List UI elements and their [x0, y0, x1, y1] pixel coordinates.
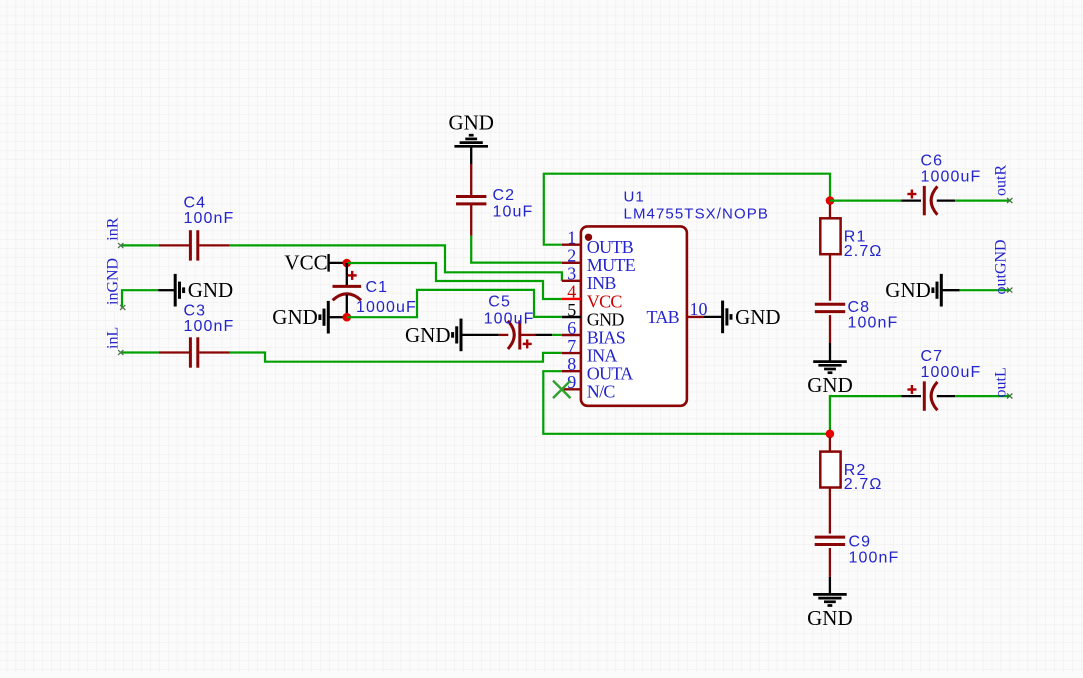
svg-text:100uF: 100uF	[484, 310, 535, 327]
wire end marker outL	[1007, 394, 1012, 399]
svg-text:100nF: 100nF	[848, 315, 899, 332]
junction at C1 bottom	[343, 313, 352, 322]
capacitor C1 (polarized)	[333, 263, 417, 317]
svg-text:inR: inR	[105, 217, 122, 240]
svg-text:LM4755TSX/NOPB: LM4755TSX/NOPB	[624, 205, 769, 222]
wire inL to C3	[121, 351, 159, 353]
wire end marker inR	[118, 243, 123, 248]
svg-text:7: 7	[567, 336, 576, 356]
svg-text:2.7Ω: 2.7Ω	[844, 476, 883, 493]
svg-text:TAB: TAB	[647, 307, 680, 327]
svg-text:GND: GND	[405, 323, 451, 347]
wire C2 to pin 2 MUTE	[471, 236, 562, 263]
wire inGND	[122, 290, 158, 307]
capacitor C3	[159, 303, 234, 368]
svg-text:GND: GND	[272, 305, 318, 329]
svg-text:GND: GND	[188, 278, 234, 302]
wire C7 to outL	[955, 395, 1009, 397]
node outGND (global label)	[993, 239, 1010, 294]
ground symbol at outGND	[885, 274, 959, 307]
pin 10 TAB	[647, 299, 708, 327]
svg-text:OUTA: OUTA	[587, 364, 633, 384]
node inL (global label)	[105, 327, 122, 349]
svg-text:6: 6	[567, 318, 576, 338]
svg-text:1000uF: 1000uF	[356, 299, 417, 316]
wire VCC node to pin 4 VCC	[347, 263, 562, 299]
svg-text:2.7Ω: 2.7Ω	[844, 243, 883, 260]
svg-text:VCC: VCC	[587, 291, 623, 311]
wire C5 to pin 6 BIAS	[552, 334, 562, 336]
svg-text:outR: outR	[993, 165, 1010, 196]
svg-text:INA: INA	[587, 346, 618, 366]
ground symbol top (above C2)	[448, 110, 494, 164]
wire pin 1 OUTB to top rail	[544, 174, 830, 245]
pin 6 BIAS	[562, 318, 625, 348]
svg-text:C2: C2	[493, 187, 516, 204]
wire outGND	[960, 289, 1010, 291]
pin 9 N/C	[562, 372, 616, 402]
svg-text:C4: C4	[184, 195, 207, 212]
resistor R1	[820, 204, 882, 260]
svg-text:C5: C5	[488, 293, 511, 310]
op-amp U1 LM4755TSX/NOPB body	[581, 188, 769, 405]
pin 4 VCC	[562, 282, 623, 312]
power symbol VCC	[284, 251, 345, 275]
node inR (global label)	[105, 217, 122, 240]
svg-text:4: 4	[567, 282, 576, 302]
wire C3 to pin 7 INA	[230, 353, 562, 362]
svg-text:INB: INB	[587, 273, 617, 293]
junction above R2	[826, 430, 835, 439]
node outR (global label)	[993, 165, 1010, 196]
capacitor C2	[456, 164, 533, 236]
pin 7 INA	[562, 336, 617, 366]
resistor R2	[820, 437, 882, 493]
no-connect X on pin 9	[553, 381, 571, 399]
node inGND (global label)	[105, 258, 122, 305]
svg-text:1000uF: 1000uF	[921, 364, 982, 381]
svg-text:C8: C8	[848, 299, 871, 316]
svg-text:GND: GND	[807, 606, 853, 630]
ground symbol left of C1	[272, 301, 343, 334]
pin 8 OUTA	[562, 354, 633, 384]
pin 3 INB	[562, 264, 616, 294]
svg-text:GND: GND	[587, 309, 625, 329]
capacitor C9	[815, 488, 900, 577]
wire C4 to pin 3 INB	[230, 245, 562, 281]
pin 5 GND	[562, 300, 624, 330]
svg-text:outL: outL	[993, 367, 1010, 397]
wire junction to C6	[830, 200, 901, 202]
wire C6 to outR	[955, 200, 1009, 202]
svg-text:inGND: inGND	[105, 258, 122, 305]
svg-text:outGND: outGND	[993, 239, 1010, 294]
svg-text:GND: GND	[885, 278, 931, 302]
svg-text:inL: inL	[105, 327, 122, 349]
svg-text:10uF: 10uF	[493, 204, 534, 221]
svg-text:GND: GND	[448, 110, 494, 134]
wire end marker outR	[1007, 198, 1012, 203]
capacitor C4	[159, 195, 235, 261]
svg-text:VCC: VCC	[284, 251, 327, 275]
svg-text:MUTE: MUTE	[587, 255, 636, 275]
capacitor C8	[815, 254, 899, 343]
wire pin 8 OUTA to bottom rail	[543, 371, 830, 434]
svg-text:U1: U1	[624, 188, 645, 205]
svg-text:5: 5	[567, 300, 576, 320]
wire C1 bottom to pin 5 GND	[347, 290, 562, 317]
capacitor C7 (polarized)	[901, 348, 981, 411]
pin 2 MUTE	[562, 246, 636, 276]
svg-text:2: 2	[567, 246, 576, 266]
svg-text:OUTB: OUTB	[587, 237, 634, 257]
svg-text:C3: C3	[184, 303, 207, 320]
wire bottom junction up to C7	[830, 396, 901, 434]
ground symbol below C8	[807, 343, 853, 397]
ground symbol below C9	[807, 577, 853, 630]
wire end marker inGND	[120, 305, 125, 310]
svg-text:1: 1	[567, 228, 576, 248]
wire end marker outGND	[1007, 288, 1012, 293]
svg-text:8: 8	[567, 354, 576, 374]
svg-text:C6: C6	[921, 152, 944, 169]
svg-text:100nF: 100nF	[849, 549, 900, 566]
wire end marker inL	[118, 350, 123, 355]
node outL (global label)	[993, 367, 1010, 397]
junction at VCC node	[343, 259, 352, 268]
pin 1 OUTB	[562, 228, 634, 258]
svg-text:N/C: N/C	[587, 382, 616, 402]
svg-text:C7: C7	[921, 348, 944, 365]
wire inR to C4	[121, 244, 159, 246]
junction above R1	[826, 196, 835, 205]
svg-text:100nF: 100nF	[184, 318, 235, 335]
capacitor C5 (polarized)	[484, 293, 553, 349]
svg-text:GND: GND	[735, 305, 781, 329]
wire GND to C5	[461, 334, 499, 336]
svg-text:C1: C1	[366, 279, 389, 296]
ground symbol at TAB	[704, 301, 781, 334]
svg-text:BIAS: BIAS	[587, 327, 625, 347]
svg-text:100nF: 100nF	[184, 210, 235, 227]
capacitor C6 (polarized)	[901, 152, 981, 215]
ground symbol left of C5	[405, 319, 461, 352]
svg-text:3: 3	[567, 264, 576, 284]
ground symbol at inGND	[158, 274, 233, 307]
svg-text:GND: GND	[807, 373, 853, 397]
svg-text:C9: C9	[849, 533, 872, 550]
svg-text:1000uF: 1000uF	[921, 169, 982, 186]
